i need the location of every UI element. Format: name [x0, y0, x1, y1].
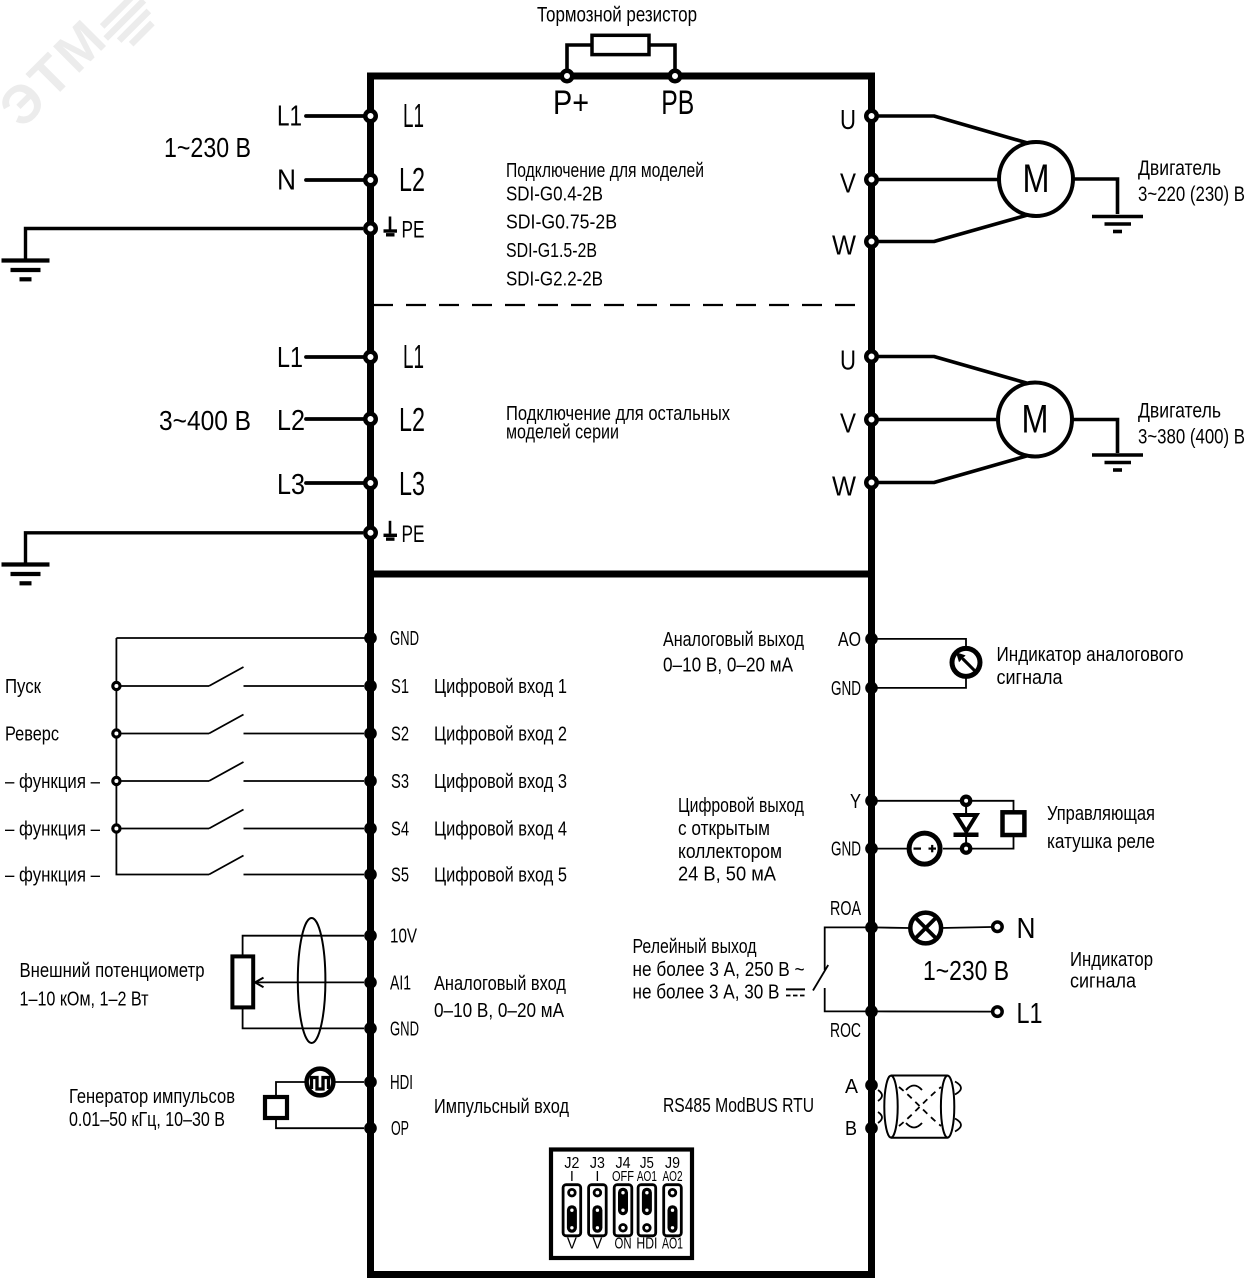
terminal N external: [993, 922, 1003, 932]
jumper J5 pin 1 (capped): [644, 1189, 651, 1196]
wire W1 to motor: [872, 215, 1028, 242]
jumper J2 cap: [567, 1210, 577, 1228]
jumper J5 strip: [638, 1185, 656, 1236]
wire pulse gen to HDI: [336, 1081, 365, 1083]
wire ROA left: [825, 927, 872, 970]
svg-text:Y: Y: [850, 791, 861, 813]
terminal PE (400V): [365, 528, 376, 539]
wire GND to potentiometer: [243, 1008, 364, 1028]
jumper J5 cap: [642, 1193, 652, 1211]
terminal GND ao: [865, 682, 878, 695]
terminal S4: [364, 822, 377, 835]
twisted pair wires dashed: [899, 1087, 941, 1126]
wire S5 left segment: [116, 874, 210, 876]
svg-text:N: N: [1017, 913, 1036, 945]
svg-text:Двигатель: Двигатель: [1138, 400, 1221, 423]
DC symbol: [786, 988, 805, 990]
wire V1 to motor: [872, 178, 1000, 182]
svg-text:GND: GND: [831, 839, 861, 861]
terminal HDI: [364, 1076, 377, 1089]
terminal L1 external: [993, 1007, 1003, 1017]
lamp indicator: [910, 913, 941, 944]
jumper J4 pin 3: [620, 1225, 627, 1232]
wire ROC left: [825, 988, 872, 1011]
diode zener: [956, 815, 977, 832]
motor M2: [998, 383, 1072, 457]
jumper J4 strip: [614, 1185, 632, 1236]
wire lamp to N: [941, 927, 991, 928]
meter arrow: [964, 660, 974, 670]
svg-text:PB: PB: [661, 84, 694, 122]
twisted pair cable shield: [891, 1075, 948, 1077]
PE symbol 2: [389, 521, 392, 534]
svg-text:OFF: OFF: [612, 1169, 634, 1185]
jumper J2 pin 3 (capped): [569, 1225, 576, 1232]
terminal Y: [865, 795, 878, 808]
jumper J3 pin 2 (capped): [594, 1207, 601, 1214]
svg-text:S2: S2: [391, 724, 409, 746]
svg-text:Индикатор аналогового: Индикатор аналогового: [997, 644, 1184, 666]
node rail S2: [113, 730, 120, 737]
jumper J4 cap: [618, 1193, 628, 1211]
svg-text:PE: PE: [402, 521, 425, 548]
cable end squiggles right: [955, 1082, 961, 1095]
svg-text:V: V: [567, 1236, 577, 1253]
resistor braking: [592, 35, 649, 54]
svg-text:1–10 кОм, 1–2 Вт: 1–10 кОм, 1–2 Вт: [20, 989, 149, 1011]
svg-text:GND: GND: [390, 628, 419, 650]
svg-text:AO1: AO1: [662, 1236, 683, 1253]
svg-text:не более 3 А, 250 В ~: не более 3 А, 250 В ~: [633, 959, 805, 981]
potentiometer wiper arrow: [255, 978, 264, 988]
jumper J2 pin 1: [569, 1189, 576, 1196]
node rail S1: [113, 682, 120, 689]
terminal GND y: [865, 842, 878, 855]
wire W2 to motor: [872, 456, 1027, 483]
motor M1: [999, 142, 1073, 216]
terminal L1 (230V): [365, 111, 376, 122]
terminal A: [865, 1079, 878, 1092]
svg-text:Индикатор: Индикатор: [1070, 949, 1153, 971]
relay contact blade: [813, 965, 828, 991]
svg-text:Релейный выход: Релейный выход: [633, 936, 757, 958]
pulse generator circle: [307, 1069, 334, 1096]
svg-text:Подключение для моделей: Подключение для моделей: [506, 159, 704, 182]
terminal AO: [865, 633, 878, 646]
svg-text:сигнала: сигнала: [997, 667, 1064, 689]
wire L1 input: [306, 114, 364, 118]
terminal S3: [364, 775, 377, 788]
jumper J2 strip: [563, 1185, 581, 1236]
terminal B: [865, 1122, 878, 1135]
svg-text:Цифровой вход 2: Цифровой вход 2: [434, 724, 567, 746]
wire L2 3ph: [306, 417, 364, 421]
svg-text:Аналоговый выход: Аналоговый выход: [663, 629, 804, 651]
wire U1 to motor: [872, 116, 1028, 143]
svg-text:OP: OP: [391, 1118, 409, 1140]
terminal S5: [364, 868, 377, 881]
wire S3 right segment: [244, 780, 365, 782]
svg-text:AO: AO: [838, 629, 861, 651]
svg-text:Цифровой вход 3: Цифровой вход 3: [434, 771, 567, 793]
jumper J5 pin 2 (capped): [644, 1207, 651, 1214]
terminal GND analog: [364, 1022, 377, 1035]
ground motor 1: [1092, 215, 1143, 219]
svg-text:S3: S3: [391, 771, 409, 793]
svg-text:Цифровой вход 5: Цифровой вход 5: [434, 865, 567, 887]
jumper J9 pin 1: [669, 1189, 676, 1196]
svg-text:PE: PE: [402, 217, 425, 244]
jumper J9 pin 3 (capped): [669, 1225, 676, 1232]
ground motor 2: [1092, 453, 1143, 457]
svg-text:L3: L3: [399, 465, 425, 502]
svg-text:S1: S1: [391, 676, 409, 698]
svg-text:1~230 В: 1~230 В: [923, 955, 1009, 986]
svg-text:Внешний потенциометр: Внешний потенциометр: [20, 960, 205, 982]
svg-text:S4: S4: [391, 819, 409, 841]
terminal OP: [364, 1122, 377, 1135]
svg-text:GND: GND: [390, 1018, 419, 1040]
svg-text:P+: P+: [553, 84, 589, 122]
svg-text:коллектором: коллектором: [678, 841, 782, 863]
svg-text:L1: L1: [403, 97, 424, 134]
pulse generator square: [265, 1097, 287, 1118]
svg-text:Реверс: Реверс: [5, 724, 59, 746]
svg-text:ROC: ROC: [830, 1020, 861, 1042]
wire PE2 to earth: [26, 533, 364, 563]
terminal S1: [364, 680, 377, 693]
relay coil: [1003, 812, 1025, 835]
svg-text:Импульсный вход: Импульсный вход: [434, 1096, 569, 1118]
terminal PE (230V): [365, 223, 376, 234]
wire S4 left segment: [121, 828, 209, 830]
svg-text:Пуск: Пуск: [5, 676, 41, 698]
svg-text:– функция –: – функция –: [5, 819, 101, 841]
wire S1 right segment: [244, 685, 365, 687]
svg-text:L1: L1: [1017, 998, 1043, 1030]
terminal S2: [364, 727, 377, 740]
wire S3 left segment: [121, 780, 209, 782]
PE symbol 1: [389, 217, 392, 230]
switch blade S2: [209, 715, 244, 734]
jumper J3 cap: [592, 1210, 602, 1228]
switch blade S3: [209, 762, 244, 781]
jumper J5 pin 3: [644, 1225, 651, 1232]
wire ROC to L1: [872, 1010, 992, 1012]
wire GND to supply: [872, 848, 908, 850]
watermark ETM logo: [0, 0, 162, 138]
jumper J9 strip: [664, 1185, 682, 1236]
svg-text:SDI-G0.4-2В: SDI-G0.4-2В: [506, 183, 603, 206]
potentiometer R: [232, 956, 253, 1007]
wire relay coil to GND: [943, 836, 1014, 849]
inverter enclosure outline: [371, 76, 872, 1275]
svg-text:HDI: HDI: [390, 1072, 413, 1094]
cable shield ellipse: [298, 918, 326, 1043]
wire L3 3ph: [306, 481, 364, 485]
svg-text:M: M: [1023, 157, 1050, 201]
svg-text:Аналоговый вход: Аналоговый вход: [434, 973, 566, 995]
svg-text:с открытым: с открытым: [678, 818, 770, 840]
svg-text:Двигатель: Двигатель: [1138, 157, 1221, 180]
svg-text:AO2: AO2: [663, 1169, 683, 1185]
svg-text:AI1: AI1: [390, 972, 411, 994]
wire motor1 to ground: [1073, 179, 1118, 214]
supply circle - +: [909, 833, 940, 864]
svg-text:L3: L3: [277, 469, 305, 501]
svg-text:сигнала: сигнала: [1070, 971, 1137, 993]
svg-text:RS485 ModBUS RTU: RS485 ModBUS RTU: [663, 1095, 814, 1117]
dashed divider between model groups: [373, 304, 868, 306]
terminal P+: [562, 71, 573, 82]
cable end squiggles left: [878, 1090, 882, 1101]
svg-text:катушка реле: катушка реле: [1047, 831, 1155, 853]
jumper J9 cap: [668, 1210, 678, 1228]
svg-text:моделей серии: моделей серии: [506, 421, 619, 444]
wire S2 right segment: [244, 733, 365, 735]
wire 10V to potentiometer: [243, 936, 364, 956]
ground earth 2: [2, 562, 50, 566]
indicator analog signal meter: [952, 648, 980, 676]
svg-text:Тормозной резистор: Тормозной резистор: [537, 4, 697, 27]
terminal PB: [670, 71, 681, 82]
svg-text:0–10 В, 0–20 мА: 0–10 В, 0–20 мА: [434, 1000, 565, 1022]
wire AI1 wiper: [256, 981, 364, 983]
svg-text:V: V: [840, 168, 856, 199]
svg-text:I: I: [570, 1169, 574, 1185]
jumper J3 pin 3 (capped): [594, 1225, 601, 1232]
terminal GND control: [364, 632, 377, 645]
wire U2 to motor: [872, 357, 1027, 384]
svg-text:SDI-G1.5-2В: SDI-G1.5-2В: [506, 239, 597, 262]
diode link bottom: [965, 837, 967, 843]
jumper J4 pin 1 (capped): [620, 1189, 627, 1196]
svg-text:Управляющая: Управляющая: [1047, 803, 1155, 825]
svg-text:L1: L1: [277, 342, 303, 374]
svg-text:Генератор импульсов: Генератор импульсов: [69, 1086, 235, 1108]
switch blade S1: [209, 667, 244, 686]
wire S5 right segment: [244, 874, 365, 876]
terminal W2: [866, 477, 877, 488]
wire S1 left segment: [121, 685, 209, 687]
svg-text:W: W: [832, 471, 857, 502]
terminal ROA: [865, 921, 878, 934]
svg-text:ON: ON: [615, 1236, 632, 1253]
terminal L2 (230V): [365, 175, 376, 186]
svg-text:SDI-G2.2-2В: SDI-G2.2-2В: [506, 268, 603, 291]
svg-text:V: V: [592, 1236, 602, 1253]
svg-text:Цифровой вход 1: Цифровой вход 1: [434, 676, 567, 698]
wire pulse gen circle to square: [276, 1082, 305, 1095]
svg-text:Цифровой вход 4: Цифровой вход 4: [434, 819, 567, 841]
svg-text:ROA: ROA: [830, 898, 861, 920]
svg-text:M: M: [1022, 398, 1049, 442]
terminal V1: [866, 174, 877, 185]
svg-text:L1: L1: [277, 101, 302, 133]
svg-text:3~400 В: 3~400 В: [159, 405, 251, 436]
diode terminal top: [962, 797, 970, 805]
svg-text:3~380 (400) В: 3~380 (400) В: [1138, 426, 1245, 449]
wire L1 3ph: [306, 355, 364, 359]
terminal U2: [866, 351, 877, 362]
svg-text:не более 3 А, 30 В: не более 3 А, 30 В: [633, 982, 780, 1004]
svg-text:L1: L1: [403, 338, 424, 375]
svg-text:B: B: [845, 1118, 857, 1140]
svg-text:V: V: [840, 408, 856, 439]
svg-text:0–10 В, 0–20 мА: 0–10 В, 0–20 мА: [663, 655, 794, 677]
terminal 10V: [364, 929, 377, 942]
jumper J4 pin 2 (capped): [620, 1207, 627, 1214]
terminal U1: [866, 111, 877, 122]
wire ROA to lamp: [872, 926, 910, 929]
svg-text:Цифровой выход: Цифровой выход: [678, 795, 804, 817]
wire AO loop bottom: [872, 678, 967, 688]
wire resistor to PB: [650, 45, 675, 76]
svg-text:L2: L2: [399, 161, 425, 198]
svg-text:SDI-G0.75-2В: SDI-G0.75-2В: [506, 211, 617, 234]
svg-text:3~220 (230) В: 3~220 (230) В: [1138, 183, 1245, 206]
jumper J3 pin 1: [594, 1189, 601, 1196]
svg-text:– функция –: – функция –: [5, 865, 101, 887]
svg-text:10V: 10V: [390, 926, 417, 948]
svg-text:N: N: [277, 165, 296, 197]
wire S4 right segment: [244, 828, 365, 830]
svg-text:U: U: [840, 104, 856, 135]
wire Y to relay coil: [872, 801, 1014, 811]
svg-text:24 В, 50 мА: 24 В, 50 мА: [678, 864, 777, 886]
svg-text:U: U: [840, 345, 856, 376]
jumper J3 strip: [589, 1185, 607, 1236]
terminal AI1: [364, 976, 377, 989]
divider power/control sections: [367, 571, 875, 578]
svg-text:HDI: HDI: [636, 1236, 657, 1253]
wire V2 to motor: [872, 418, 999, 422]
switch blade S5: [209, 856, 244, 875]
svg-text:I: I: [595, 1169, 599, 1185]
svg-text:L2: L2: [277, 405, 305, 437]
terminal L1 (400V): [365, 352, 376, 363]
wire S2 left segment: [121, 733, 209, 735]
svg-text:S5: S5: [391, 865, 409, 887]
terminal ROC: [865, 1005, 878, 1018]
node rail S3: [113, 777, 120, 784]
jumper J2 pin 2 (capped): [569, 1207, 576, 1214]
wire AO loop top: [872, 639, 967, 647]
terminal W1: [866, 236, 877, 247]
wire motor2 to ground: [1072, 420, 1118, 454]
wire N input: [306, 178, 364, 182]
svg-text:W: W: [832, 230, 857, 261]
terminal L2 (400V): [365, 414, 376, 425]
svg-text:– функция –: – функция –: [5, 771, 101, 793]
jumper J9 pin 2 (capped): [669, 1207, 676, 1214]
diode link top: [965, 807, 967, 813]
svg-text:L2: L2: [399, 401, 425, 438]
switch blade S4: [209, 810, 244, 829]
wire PE1 to earth: [26, 229, 364, 261]
wire rail digital inputs: [115, 638, 117, 875]
terminal L3 (400V): [365, 478, 376, 489]
svg-text:A: A: [845, 1076, 859, 1098]
svg-text:1~230 В: 1~230 В: [164, 132, 251, 163]
wire square to OP: [276, 1120, 364, 1128]
terminal V2: [866, 414, 877, 425]
svg-text:GND: GND: [831, 678, 861, 700]
diode terminal bottom: [962, 844, 970, 852]
svg-text:0.01–50 кГц, 10–30 В: 0.01–50 кГц, 10–30 В: [69, 1109, 225, 1131]
node rail S4: [113, 825, 120, 832]
wire P+ to resistor: [567, 45, 591, 76]
ground earth 1: [2, 258, 50, 262]
jumper block box: [551, 1150, 692, 1259]
wire GND common: [116, 637, 370, 639]
svg-text:AO1: AO1: [637, 1169, 657, 1185]
pulse waveform glyph: [312, 1078, 329, 1090]
